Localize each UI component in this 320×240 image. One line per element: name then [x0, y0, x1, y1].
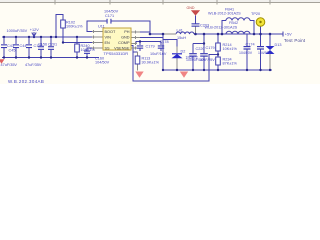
- svg-text:EN: EN: [105, 41, 111, 45]
- svg-text:47uF/35V: 47uF/35V: [25, 63, 42, 67]
- svg-text:104/50V: 104/50V: [104, 9, 119, 13]
- svg-text:VSENSE: VSENSE: [114, 46, 130, 50]
- svg-text:TPS54331DR: TPS54331DR: [104, 51, 129, 56]
- svg-text:15uH: 15uH: [177, 36, 186, 40]
- svg-text:+5V: +5V: [285, 32, 292, 36]
- svg-text:SS: SS: [105, 46, 111, 50]
- svg-text:47uF/35V: 47uF/35V: [1, 63, 18, 67]
- svg-text:C220: C220: [196, 47, 205, 51]
- svg-text:100K±1%: 100K±1%: [66, 24, 83, 28]
- svg-text:10uF/25V: 10uF/25V: [200, 58, 216, 62]
- svg-text:L41: L41: [177, 28, 183, 32]
- svg-text:+12V: +12V: [30, 28, 39, 32]
- svg-text:VIN: VIN: [105, 35, 112, 39]
- svg-text:104/50V: 104/50V: [239, 51, 253, 55]
- svg-text:PH: PH: [124, 30, 130, 34]
- svg-text:C174: C174: [246, 43, 255, 47]
- svg-text:W.B.202.304AB: W.B.202.304AB: [8, 79, 44, 84]
- svg-text:104/50V: 104/50V: [258, 51, 271, 55]
- svg-text:C156: C156: [38, 43, 47, 47]
- svg-text:U11: U11: [98, 25, 105, 29]
- svg-text:104/50V: 104/50V: [95, 61, 110, 65]
- svg-text:C179: C179: [206, 46, 215, 50]
- svg-text:D13: D13: [275, 43, 282, 47]
- svg-text:10K±1%: 10K±1%: [223, 47, 238, 51]
- svg-text:C45: C45: [9, 48, 16, 52]
- svg-text:Test Point: Test Point: [284, 38, 306, 43]
- svg-text:TP20: TP20: [251, 12, 260, 16]
- svg-text:10K±1%: 10K±1%: [81, 48, 96, 52]
- svg-text:10uF/16V: 10uF/16V: [150, 52, 167, 56]
- svg-text:GND: GND: [121, 35, 130, 39]
- svg-text:C44: C44: [20, 44, 27, 48]
- svg-text:C171: C171: [105, 14, 114, 18]
- svg-text:D2: D2: [181, 49, 186, 53]
- svg-text:1000uF/35V: 1000uF/35V: [7, 29, 28, 33]
- svg-text:COMP: COMP: [118, 41, 130, 45]
- svg-text:WLB-2012-301A2S: WLB-2012-301A2S: [208, 12, 241, 16]
- svg-text:GND: GND: [187, 6, 195, 10]
- svg-text:87K±1%: 87K±1%: [223, 61, 238, 65]
- svg-text:C201: C201: [48, 43, 57, 47]
- svg-text:30.9K±1%: 30.9K±1%: [142, 60, 160, 64]
- svg-text:C179: C179: [146, 45, 155, 49]
- svg-text:WLB-2012-301A2S: WLB-2012-301A2S: [205, 25, 238, 29]
- svg-text:BOOT: BOOT: [105, 30, 116, 34]
- svg-text:C178: C178: [160, 40, 169, 44]
